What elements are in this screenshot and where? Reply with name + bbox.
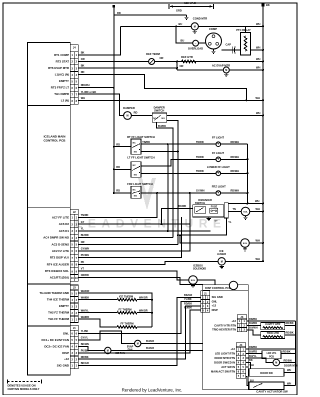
svg-text:OR: OR xyxy=(160,56,164,60)
door switch DOOR SW xyxy=(246,363,251,369)
wire J2-4 BU/RD from damper NO xyxy=(79,237,174,239)
svg-text:SIG GND: SIG GND xyxy=(57,364,69,368)
svg-text:RD: RD xyxy=(117,11,121,15)
svg-text:TRIO HTR: TRIO HTR xyxy=(267,331,279,335)
icemaker header bar xyxy=(224,203,228,218)
wire feed RT FF switch xyxy=(114,146,131,148)
svg-text:DOOR MTR: DOOR MTR xyxy=(284,364,298,368)
svg-text:WH/BK: WH/BK xyxy=(81,296,90,299)
svg-text:LT FF LIGHT SWITCH: LT FF LIGHT SWITCH xyxy=(127,156,154,160)
svg-text:BK/GR: BK/GR xyxy=(81,362,89,365)
svg-text:RT4 ICE AUGER: RT4 ICE AUGER xyxy=(47,262,70,266)
svg-text:RT2 DISP VLV: RT2 DISP VLV xyxy=(50,256,69,260)
wire compressor run to cap/PTC xyxy=(222,49,241,51)
svg-text:CERTAIN MODELS ONLY: CERTAIN MODELS ONLY xyxy=(8,387,40,391)
svg-text:FRZ LIGHT: FRZ LIGHT xyxy=(212,185,226,189)
connector J1 on main PCB xyxy=(70,325,78,330)
wire disp J4 +12 to rail xyxy=(246,348,296,350)
svg-text:TN/RD: TN/RD xyxy=(196,170,204,173)
bus top tick BK xyxy=(262,4,264,6)
svg-text:Rendered by LeadVenture, Inc.: Rendered by LeadVenture, Inc. xyxy=(122,388,183,393)
svg-text:TN/RD: TN/RD xyxy=(196,156,204,159)
disp connector J1 xyxy=(201,291,210,295)
PCB section divider 3 xyxy=(28,283,71,285)
svg-text:NC: NC xyxy=(133,190,137,192)
svg-text:PTC RELAY: PTC RELAY xyxy=(236,28,251,32)
svg-text:COND MTR: COND MTR xyxy=(193,17,208,21)
J3 pin name labels xyxy=(39,291,69,321)
svg-text:CAVITY ACTUATOR SW: CAVITY ACTUATOR SW xyxy=(256,390,288,394)
svg-text:BK: BK xyxy=(81,64,85,68)
svg-text:TN/RD: TN/RD xyxy=(81,214,89,217)
svg-text:DEF TERM: DEF TERM xyxy=(146,52,160,56)
solenoid SOL 1 xyxy=(241,207,250,216)
svg-text:BU/YL: BU/YL xyxy=(249,354,257,358)
wire J1 GND YL/BK to disp xyxy=(79,301,201,333)
svg-text:RT3 FF/FZ LT: RT3 FF/FZ LT xyxy=(51,86,69,90)
trio heater TRIO HTR xyxy=(247,330,261,335)
svg-text:TN/RD: TN/RD xyxy=(142,141,150,144)
svg-text:BK: BK xyxy=(81,51,85,55)
svg-text:DOOR MTR RTN: DOOR MTR RTN xyxy=(214,356,235,360)
svg-text:WH: WH xyxy=(256,111,260,115)
svg-text:NO: NO xyxy=(134,152,138,154)
svg-text:AC6 D2: AC6 D2 xyxy=(59,222,70,226)
wire disp +12 to rail xyxy=(247,320,296,322)
wire LT FF NO to lower light xyxy=(141,172,248,174)
svg-text:SWITCH: SWITCH xyxy=(154,108,164,112)
wire to fill solenoid SOL 2 xyxy=(180,235,241,243)
svg-text:AC1/RT1(D16): AC1/RT1(D16) xyxy=(50,276,69,280)
ice fan motor ICE FAN xyxy=(105,347,111,353)
svg-text:RD: RD xyxy=(116,189,120,193)
wire evap fan feed GY/YL xyxy=(79,331,135,343)
door motor DOOR MTR xyxy=(246,358,273,362)
svg-text:PCB: PCB xyxy=(269,357,274,359)
svg-text:WH: WH xyxy=(250,363,254,367)
svg-text:115 VAC: 115 VAC xyxy=(184,1,197,5)
overload protector xyxy=(193,40,199,46)
wire sol2 to bus xyxy=(249,242,263,244)
solenoid SOL 2 xyxy=(241,239,250,248)
wire icemaker top to bus xyxy=(228,203,263,205)
wire J4 row8 neutral WH to bus xyxy=(79,99,264,101)
svg-text:RD: RD xyxy=(116,142,120,146)
wire top line to COND MTR and PTC xyxy=(120,25,263,27)
svg-text:GRD: GRD xyxy=(176,9,182,13)
svg-text:BU: BU xyxy=(181,39,185,43)
svg-text:WH: WH xyxy=(256,66,260,70)
svg-text:RD/WH: RD/WH xyxy=(231,190,240,193)
svg-text:GY: GY xyxy=(81,221,85,224)
wire icemaker bar bottom to J2-5 net xyxy=(178,218,226,235)
svg-text:WH/RD: WH/RD xyxy=(81,316,90,319)
svg-text:RT FF LIGHT SWITCH: RT FF LIGHT SWITCH xyxy=(127,135,155,139)
svg-text:RD: RD xyxy=(116,165,120,169)
svg-text:NO: NO xyxy=(162,118,166,120)
wire evap fan out BU/GR xyxy=(141,343,203,345)
wire damper sense stub to J2-5 xyxy=(167,120,178,244)
disp connector J4 xyxy=(236,343,246,347)
svg-text:BU/GR: BU/GR xyxy=(146,340,154,343)
wire lamp return collector xyxy=(247,144,249,203)
svg-text:PK: PK xyxy=(81,261,85,264)
svg-text:RT1 COMP: RT1 COMP xyxy=(54,53,69,57)
ground below evap motor xyxy=(225,73,227,75)
wire overload to compressor xyxy=(199,42,207,44)
svg-text:NC: NC xyxy=(133,142,137,144)
wire J4 row7 to damper motor xyxy=(79,94,125,115)
svg-text:AC5 D1: AC5 D1 xyxy=(59,229,70,233)
svg-text:DOOR SW/CD IN: DOOR SW/CD IN xyxy=(214,361,235,365)
svg-text:BK/GR: BK/GR xyxy=(184,293,192,297)
svg-text:BK/WH: BK/WH xyxy=(81,343,90,346)
svg-text:FF LIGHT: FF LIGHT xyxy=(212,136,224,140)
svg-text:WH/OR: WH/OR xyxy=(81,290,90,293)
wire feed FRZ switch xyxy=(114,192,131,194)
svg-text:FF THERM: FF THERM xyxy=(120,321,133,325)
wire J1 SIG GND BK/GR to disp xyxy=(79,297,201,365)
svg-text:DEF HTR: DEF HTR xyxy=(181,55,193,59)
svg-text:WH: WH xyxy=(256,257,260,261)
disp connector J3 xyxy=(237,315,247,319)
wire J2-8 PK to ice auger xyxy=(79,261,219,264)
svg-text:WH: WH xyxy=(256,22,260,26)
svg-text:BU/WH: BU/WH xyxy=(249,326,258,330)
svg-text:MAIN ACT SW RTN: MAIN ACT SW RTN xyxy=(211,369,235,373)
wire vertical bus RD xyxy=(113,6,115,193)
svg-text:AC2 FZ LITE: AC2 FZ LITE xyxy=(52,249,69,253)
disp control PCB box DISP CONTROL PCB xyxy=(203,285,249,390)
svg-text:RD/BK: RD/BK xyxy=(286,331,294,335)
svg-text:WH/OR: WH/OR xyxy=(139,296,148,299)
svg-text:SOL: SOL xyxy=(243,212,248,214)
svg-text:M: M xyxy=(225,69,227,72)
svg-text:GY/WH: GY/WH xyxy=(81,248,90,251)
svg-text:TH1 FF THERM: TH1 FF THERM xyxy=(48,317,69,321)
svg-text:DISP: DISP xyxy=(212,308,218,312)
wire J2-3 YL to FF light 1 xyxy=(79,230,211,232)
wire ice fan out BU/GR xyxy=(111,350,203,352)
svg-text:YL: YL xyxy=(81,228,85,231)
svg-text:RD/BK: RD/BK xyxy=(249,345,257,349)
svg-text:+12: +12 xyxy=(232,319,237,323)
svg-text:RD/BK: RD/BK xyxy=(81,356,89,359)
svg-text:SIG GND: SIG GND xyxy=(212,295,223,299)
svg-text:FF LIGHT: FF LIGHT xyxy=(212,151,224,155)
evap fan motor EVAP FAN xyxy=(135,340,141,346)
svg-text:GY/WH: GY/WH xyxy=(196,190,205,193)
svg-text:WH: WH xyxy=(256,57,260,61)
svg-text:WH: WH xyxy=(256,239,260,243)
svg-text:RD/BN: RD/BN xyxy=(284,358,292,362)
svg-text:RT2 STAT: RT2 STAT xyxy=(56,60,70,64)
J1 pin name labels xyxy=(42,332,70,368)
svg-text:PU/BK: PU/BK xyxy=(184,306,192,310)
main control PCB outline xyxy=(28,42,71,375)
wire J4 row6 to bus xyxy=(79,87,114,89)
svg-text:WH: WH xyxy=(255,199,259,203)
svg-text:RT3 ICEBOX SOL: RT3 ICEBOX SOL xyxy=(45,269,69,273)
svg-text:RD/BK: RD/BK xyxy=(249,317,257,321)
svg-text:BU/RD: BU/RD xyxy=(249,321,257,325)
svg-text:+12: +12 xyxy=(212,304,217,308)
connector J4 on main PCB xyxy=(70,45,78,52)
svg-text:AC7 FF LITE: AC7 FF LITE xyxy=(52,216,69,220)
svg-text:L1(AC) (N): L1(AC) (N) xyxy=(55,73,69,77)
bus RD top tick xyxy=(113,5,115,7)
svg-text:AC4 DMPR SW NO: AC4 DMPR SW NO xyxy=(43,236,69,240)
svg-text:TH1 DMPR: TH1 DMPR xyxy=(54,92,70,96)
svg-text:DENOTES USAGE ON: DENOTES USAGE ON xyxy=(8,383,36,387)
svg-text:RD/WH: RD/WH xyxy=(231,170,240,173)
svg-text:NO: NO xyxy=(134,175,138,177)
wire ice fan feed BK/WH xyxy=(79,346,105,350)
svg-text:TN: TN xyxy=(233,208,237,211)
wire PTC to bus xyxy=(251,49,264,51)
ground icemaker xyxy=(208,217,210,218)
svg-text:CONTROL PCB: CONTROL PCB xyxy=(44,139,67,143)
svg-text:DISP: DISP xyxy=(62,351,69,355)
svg-text:WH/YL: WH/YL xyxy=(81,309,90,312)
wire J2-10 OR/RD to disp pcb xyxy=(79,278,203,285)
wire J2-9 VT to icebox solenoid xyxy=(79,271,189,280)
svg-text:SOL: SOL xyxy=(243,243,248,245)
ground below compressor xyxy=(213,49,215,51)
wire J2-2 GY to icemaker feed xyxy=(79,223,190,225)
wire damper switch to bus xyxy=(167,115,263,117)
wire J2-5 OR damper sense xyxy=(79,243,178,245)
svg-text:BK: BK xyxy=(249,358,253,362)
svg-text:BU/RD: BU/RD xyxy=(81,234,89,237)
svg-text:DC2+ DC ICE FAN: DC2+ DC ICE FAN xyxy=(44,344,69,348)
wire def-evap branch xyxy=(176,62,178,71)
J2 pin name labels xyxy=(43,216,70,280)
ground below sol2 xyxy=(244,247,246,248)
svg-text:BK: BK xyxy=(266,3,270,7)
svg-text:TH4 ICE THERM: TH4 ICE THERM xyxy=(47,298,70,302)
svg-text:NO: NO xyxy=(134,196,138,198)
svg-text:SOL: SOL xyxy=(191,280,196,282)
svg-text:TN/RD: TN/RD xyxy=(196,141,204,144)
wire therm gnd bus WH/OR xyxy=(79,293,153,327)
wire branch to overload xyxy=(176,26,193,43)
dimension arrow 115 VAC xyxy=(168,4,170,9)
ground below sol1 xyxy=(245,216,247,217)
svg-text:OR: OR xyxy=(81,57,85,61)
svg-text:RD: RD xyxy=(134,111,138,115)
wire RT FF NC to FF light xyxy=(141,143,248,145)
wire AC EVAP MTR line xyxy=(177,69,263,71)
svg-text:M: M xyxy=(194,25,196,28)
svg-text:RD/BK: RD/BK xyxy=(184,302,192,306)
wire J1 +12V RD/BK to disp xyxy=(79,306,201,359)
svg-text:BU: BU xyxy=(179,22,183,26)
wire damper switch NO down BU/RD to J2-4 xyxy=(157,122,174,237)
wire icebox sol to disp pcb xyxy=(197,280,215,285)
J4 pin name labels xyxy=(48,53,70,103)
wire DEF line xyxy=(79,61,264,63)
svg-text:M: M xyxy=(107,350,109,353)
svg-text:DAMPER: DAMPER xyxy=(123,106,135,110)
connector J3 on main PCB xyxy=(70,285,78,290)
svg-text:WH: WH xyxy=(256,96,260,100)
svg-text:WH: WH xyxy=(287,381,291,385)
svg-text:TH-GND THERM GND: TH-GND THERM GND xyxy=(39,291,69,295)
ground below auger xyxy=(221,265,223,266)
svg-text:RD: RD xyxy=(81,70,85,74)
cavity heater CAVITY HTR xyxy=(247,325,261,327)
svg-text:GNL: GNL xyxy=(212,299,218,303)
svg-text:LOWER FF LIGHT: LOWER FF LIGHT xyxy=(207,165,230,169)
svg-text:EMPTY: EMPTY xyxy=(59,79,69,83)
svg-text:OR/RD: OR/RD xyxy=(81,274,89,277)
svg-text:M: M xyxy=(221,260,223,263)
svg-text:FRZ LIGHT SWITCH: FRZ LIGHT SWITCH xyxy=(127,182,152,186)
svg-text:RD/WH: RD/WH xyxy=(231,156,240,159)
svg-text:ICE THERM: ICE THERM xyxy=(119,294,133,298)
svg-text:LED LIGHT RTN: LED LIGHT RTN xyxy=(215,352,235,356)
svg-text:OR: OR xyxy=(81,241,85,244)
svg-text:+12: +12 xyxy=(64,357,69,361)
svg-text:PU/BK: PU/BK xyxy=(81,349,89,352)
connector J2 on main PCB xyxy=(70,209,78,214)
wire auger to bus xyxy=(225,260,263,262)
svg-text:EMPTY: EMPTY xyxy=(59,304,69,308)
right supply bus WH xyxy=(262,5,264,261)
PCB section divider 4 xyxy=(28,325,71,327)
svg-text:M: M xyxy=(275,362,277,365)
svg-text:COMP: COMP xyxy=(209,27,217,31)
wire J2-1 FF lite TN/RD to FRZ row xyxy=(79,193,158,218)
svg-text:NC: NC xyxy=(133,165,137,167)
svg-text:WH: WH xyxy=(287,368,291,372)
svg-text:CAVITY HTR: CAVITY HTR xyxy=(265,322,280,326)
svg-text:LED LTG: LED LTG xyxy=(267,353,277,355)
wire J4 row1 to comp line xyxy=(79,26,121,55)
svg-text:OVERLOAD: OVERLOAD xyxy=(188,46,203,50)
wire FRZ switch to FRZ light xyxy=(141,192,248,194)
svg-text:RD/WH: RD/WH xyxy=(81,83,90,87)
svg-text:YL: YL xyxy=(228,221,232,224)
svg-text:RD/BK: RD/BK xyxy=(286,321,294,325)
ground below icebox sol xyxy=(192,284,194,285)
svg-text:BK/RD: BK/RD xyxy=(178,205,186,208)
cavity actuator switch CAVITY ACTUATOR SW xyxy=(246,376,249,385)
note DENOTES USAGE ON CERTAIN MODELS ONLY xyxy=(7,380,9,384)
wire sol1 to bus xyxy=(250,211,263,213)
svg-text:GY/YL: GY/YL xyxy=(81,337,89,340)
svg-text:YL/BK: YL/BK xyxy=(81,330,89,333)
svg-text:OR: OR xyxy=(180,64,184,68)
svg-text:VT: VT xyxy=(81,268,85,271)
svg-text:AC3 D-SENS: AC3 D-SENS xyxy=(51,242,69,246)
svg-text:GNL: GNL xyxy=(63,332,69,336)
svg-text:TH2 FZ THERM: TH2 FZ THERM xyxy=(48,311,69,315)
wire J2-6 GY/WH to FRZ light xyxy=(79,193,190,251)
wire feed LT FF switch xyxy=(114,168,131,170)
LED light pcb LED LTG xyxy=(246,353,262,355)
wire J4 row4 neutral step route to bus xyxy=(79,75,247,101)
wire PTC top stub xyxy=(245,26,247,32)
svg-text:LEADVENTURE: LEADVENTURE xyxy=(75,217,227,231)
wire icemaker to water solenoid xyxy=(228,211,241,213)
svg-text:TRIO HEATER RTN: TRIO HEATER RTN xyxy=(212,328,236,332)
buzzer circle on disp pcb xyxy=(229,281,237,289)
svg-text:WH: WH xyxy=(256,207,260,211)
svg-text:M: M xyxy=(137,343,139,346)
svg-text:YL/RD or BK: YL/RD or BK xyxy=(81,90,97,94)
wire LT FF NC to FF light 2 xyxy=(141,159,248,166)
svg-text:SOLENOID: SOLENOID xyxy=(193,268,206,271)
PCB section divider 2 xyxy=(28,207,71,209)
svg-text:L2 (N): L2 (N) xyxy=(61,99,69,103)
svg-text:DC1+ DC EVAP FAN: DC1+ DC EVAP FAN xyxy=(42,338,69,342)
svg-text:M: M xyxy=(127,115,129,118)
disp pcb title band xyxy=(203,289,249,291)
wire RT FF NO stub xyxy=(141,151,178,153)
svg-text:WH/OR: WH/OR xyxy=(139,309,148,312)
stub disp J4 row5 WH xyxy=(246,366,249,368)
svg-text:CAVITY HTR RTN: CAVITY HTR RTN xyxy=(214,323,236,327)
PCB section divider 1 xyxy=(28,104,71,106)
svg-text:FUSE: FUSE xyxy=(211,205,218,208)
svg-text:BU/GR: BU/GR xyxy=(146,347,154,350)
disp +12 rail xyxy=(294,321,296,386)
wire RD from bus to ground point xyxy=(114,14,187,16)
svg-text:BU/RD: BU/RD xyxy=(158,125,166,128)
wire BK/RD into icemaker xyxy=(170,208,193,210)
svg-text:CAP: CAP xyxy=(226,42,232,46)
svg-text:RD/WH: RD/WH xyxy=(231,141,240,144)
watermark LeadVenture xyxy=(75,178,227,231)
svg-text:ACT SW IN: ACT SW IN xyxy=(221,365,235,369)
wire damper motor to switch xyxy=(132,115,153,117)
ground below cond motor xyxy=(194,30,196,32)
svg-text:YL/BK: YL/BK xyxy=(184,297,192,301)
svg-text:DOOR SW: DOOR SW xyxy=(260,371,273,375)
ground GRD symbol xyxy=(186,15,188,17)
svg-text:DISP CONTROL PCB: DISP CONTROL PCB xyxy=(205,286,231,290)
svg-text:WH: WH xyxy=(256,46,260,50)
svg-text:PU/WH: PU/WH xyxy=(81,254,90,257)
svg-text:RT6 EVAP MTR: RT6 EVAP MTR xyxy=(48,66,70,70)
wire J2-7 PU/WH to icemaker bottom xyxy=(79,217,182,258)
svg-text:BU/RD: BU/RD xyxy=(249,349,257,353)
wire J1 DISP PU/BK to disp xyxy=(79,310,201,353)
wire J4 row3 evap xyxy=(79,67,178,69)
svg-text:+12: +12 xyxy=(231,347,236,351)
svg-text:RD/BK: RD/BK xyxy=(283,349,291,353)
svg-text:WH: WH xyxy=(81,96,85,100)
svg-text:AUGER: AUGER xyxy=(217,253,226,256)
